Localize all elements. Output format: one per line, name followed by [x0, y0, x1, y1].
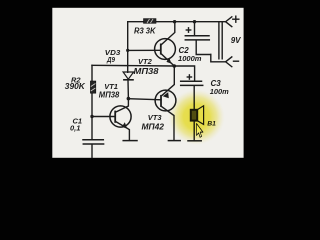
svg-text:МП42: МП42	[142, 123, 165, 132]
svg-text:R3 3K: R3 3K	[134, 27, 157, 36]
svg-text:VT3: VT3	[148, 113, 163, 122]
svg-text:МП38: МП38	[134, 67, 160, 76]
svg-text:390K: 390K	[65, 82, 86, 91]
svg-text:1000m: 1000m	[178, 54, 202, 63]
svg-text:МП38: МП38	[99, 90, 120, 99]
svg-text:VT2: VT2	[138, 57, 153, 66]
svg-text:0,1: 0,1	[70, 123, 80, 132]
svg-text:VD3: VD3	[105, 50, 121, 57]
svg-text:Д9: Д9	[106, 57, 115, 64]
svg-text:9V: 9V	[231, 36, 241, 45]
